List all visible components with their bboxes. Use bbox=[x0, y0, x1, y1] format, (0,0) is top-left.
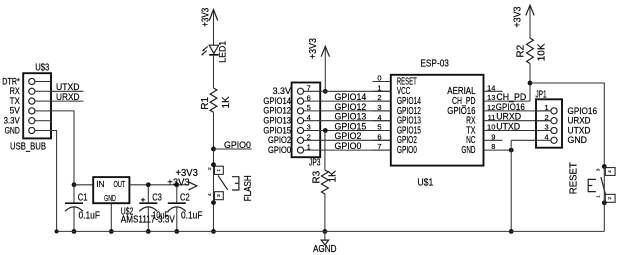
connector JP3 pin 2 circle bbox=[297, 137, 303, 143]
svg-text:OUT: OUT bbox=[114, 179, 126, 189]
svg-text:CH_PD: CH_PD bbox=[496, 92, 526, 102]
junction regulator GND at rail bbox=[109, 229, 114, 234]
wire ESP GND to rail bbox=[503, 149, 512, 151]
connector U$3 pin 4 circle bbox=[29, 108, 35, 114]
svg-text:GND: GND bbox=[104, 193, 116, 203]
switch FLASH contact box bottom bbox=[215, 192, 224, 200]
resistor R1 bbox=[210, 88, 217, 112]
svg-text:AGND: AGND bbox=[313, 244, 337, 255]
svg-text:5: 5 bbox=[377, 123, 381, 132]
svg-text:R3: R3 bbox=[311, 170, 322, 183]
IC U$1 left pin 4 stub bbox=[373, 120, 391, 122]
svg-text:5V: 5V bbox=[10, 106, 20, 116]
connector JP1 pin 1 circle bbox=[551, 108, 557, 114]
switch FLASH contact box top bbox=[215, 166, 224, 174]
connector JP3 pin 5 circle bbox=[297, 108, 303, 114]
junction R2 to RESET net bbox=[528, 81, 533, 86]
svg-text:1: 1 bbox=[596, 195, 602, 198]
svg-text:1: 1 bbox=[307, 142, 311, 151]
supply +3V3 arrow up at JP3 bbox=[324, 46, 326, 91]
wire R2 to CH_PD bbox=[529, 64, 531, 102]
svg-text:1: 1 bbox=[377, 83, 381, 92]
svg-text:GPIO12: GPIO12 bbox=[335, 102, 367, 112]
svg-text:DTR*: DTR* bbox=[2, 76, 20, 86]
junction FLASH at ground rail bbox=[211, 229, 216, 234]
svg-text:C2: C2 bbox=[180, 193, 190, 204]
svg-text:R1: R1 bbox=[200, 96, 211, 109]
wire JP1 GND pin bbox=[511, 139, 536, 141]
svg-text:0.1uF: 0.1uF bbox=[79, 211, 101, 222]
svg-text:2: 2 bbox=[607, 197, 613, 200]
svg-text:2: 2 bbox=[307, 133, 311, 142]
IC U$1 ESP-03 body bbox=[391, 75, 484, 166]
svg-text:3: 3 bbox=[216, 194, 222, 197]
svg-text:3.3V: 3.3V bbox=[273, 86, 292, 96]
svg-text:1K: 1K bbox=[328, 170, 339, 183]
svg-text:GPIO2: GPIO2 bbox=[335, 131, 362, 141]
svg-text:4: 4 bbox=[207, 193, 213, 196]
junction ESP GND bbox=[509, 148, 514, 153]
svg-text:+3V3: +3V3 bbox=[167, 177, 190, 188]
svg-text:11: 11 bbox=[488, 113, 496, 122]
wire JP3 pin 3 to ESP row 5 bbox=[320, 130, 391, 132]
IC U$1 left pin 6 stub bbox=[373, 139, 391, 141]
svg-text:FLASH: FLASH bbox=[243, 175, 254, 201]
wire UTXD net bbox=[503, 130, 551, 132]
junction FLASH pins 1-2 bbox=[211, 162, 216, 167]
junction ground rail left end bbox=[55, 229, 59, 233]
wire GPIO16 net bbox=[503, 110, 551, 112]
wire GPIO15 to R3 bbox=[324, 131, 326, 171]
wire USB GND to ground rail bbox=[51, 131, 57, 232]
resistor R2 bbox=[527, 38, 534, 64]
wire URXD net bbox=[503, 120, 551, 122]
svg-text:6: 6 bbox=[377, 132, 381, 141]
wire TX to URXD bbox=[51, 100, 83, 102]
connector U$3 pin 6 circle bbox=[29, 127, 35, 133]
svg-text:RX: RX bbox=[10, 86, 20, 96]
svg-text:GPIO16: GPIO16 bbox=[496, 102, 525, 112]
svg-text:10K: 10K bbox=[537, 43, 548, 61]
connector JP3 pin 3 circle bbox=[297, 127, 303, 133]
wire R1 to GPIO0 node bbox=[213, 112, 215, 149]
junction VCC supply bbox=[323, 89, 328, 94]
node GPIO0 junction bbox=[211, 147, 216, 152]
svg-text:14: 14 bbox=[487, 83, 495, 92]
capacitor C1 0.1uF bbox=[73, 185, 75, 203]
junction GPIO15 to R3 bbox=[323, 128, 328, 133]
connector JP1 body bbox=[536, 99, 562, 147]
svg-text:LED1: LED1 bbox=[218, 41, 228, 63]
connector JP1 pin 4 circle bbox=[551, 137, 557, 143]
junction FLASH pins 3-4 bbox=[211, 200, 216, 205]
svg-text:URXD: URXD bbox=[496, 112, 521, 122]
ground AGND symbol bbox=[324, 231, 326, 240]
svg-text:GPIO0: GPIO0 bbox=[224, 140, 251, 150]
svg-text:GND: GND bbox=[461, 145, 475, 156]
svg-text:USB_BUB: USB_BUB bbox=[10, 141, 46, 152]
svg-text:GPIO2: GPIO2 bbox=[268, 135, 291, 145]
svg-text:9: 9 bbox=[491, 132, 495, 141]
connector JP3 pin 7 circle bbox=[297, 88, 303, 94]
voltage regulator U$2 body bbox=[93, 177, 129, 203]
wire R3 to ground rail bbox=[324, 194, 326, 231]
wire JP3 pin 7 to ESP row 1 bbox=[320, 90, 391, 92]
svg-text:IN: IN bbox=[96, 179, 104, 189]
svg-text:GPIO14: GPIO14 bbox=[263, 96, 291, 106]
svg-text:GPIO16: GPIO16 bbox=[568, 106, 598, 116]
svg-text:8: 8 bbox=[491, 142, 495, 151]
svg-text:GPIO0: GPIO0 bbox=[335, 141, 362, 151]
wire ground rail bbox=[57, 230, 605, 232]
svg-text:GPIO0: GPIO0 bbox=[397, 145, 417, 156]
connector U$3 USB_BUB body bbox=[23, 73, 51, 138]
svg-text:0: 0 bbox=[377, 74, 381, 83]
junction GND at ground rail bbox=[509, 229, 514, 234]
IC U$1 right pin 11 stub bbox=[484, 120, 503, 122]
switch FLASH lever bbox=[218, 175, 228, 189]
svg-text:+3V3: +3V3 bbox=[201, 7, 212, 26]
svg-text:10: 10 bbox=[487, 123, 495, 132]
svg-text:+3V3: +3V3 bbox=[513, 6, 524, 27]
IC U$1 right pin 13 stub bbox=[484, 100, 503, 102]
svg-text:1: 1 bbox=[545, 103, 549, 112]
svg-text:4: 4 bbox=[607, 170, 613, 173]
wire RESET switch to ground rail bbox=[603, 167, 605, 232]
resistor R3 bbox=[322, 170, 329, 194]
svg-text:C3: C3 bbox=[152, 193, 162, 204]
switch RESET lever bbox=[601, 177, 606, 195]
svg-text:URXD: URXD bbox=[568, 116, 591, 126]
IC U$1 right pin 9 stub bbox=[484, 139, 503, 141]
svg-text:RESET: RESET bbox=[569, 162, 580, 194]
svg-text:5: 5 bbox=[307, 103, 311, 112]
wire JP3 pin 1 to ESP row 7 bbox=[320, 149, 391, 151]
node 5V input junction bbox=[72, 182, 77, 187]
LED LED1 light arrow 2 bbox=[203, 51, 207, 54]
IC U$1 left pin 0 stub bbox=[373, 81, 391, 83]
svg-text:GPIO13: GPIO13 bbox=[335, 112, 367, 122]
svg-text:GND: GND bbox=[568, 135, 588, 145]
svg-text:2: 2 bbox=[545, 113, 549, 122]
svg-text:12: 12 bbox=[487, 103, 495, 112]
IC U$1 right pin 10 stub bbox=[484, 130, 503, 132]
svg-text:GPIO12: GPIO12 bbox=[263, 106, 291, 116]
svg-text:3: 3 bbox=[377, 103, 381, 112]
connector JP3 pin 6 circle bbox=[297, 98, 303, 104]
wire regulator IN bbox=[74, 184, 93, 186]
svg-text:TX: TX bbox=[10, 96, 20, 106]
connector JP3 pin 1 circle bbox=[297, 147, 303, 153]
switch FLASH actuator bracket bbox=[232, 177, 239, 190]
svg-text:4: 4 bbox=[545, 133, 549, 142]
svg-text:3: 3 bbox=[596, 168, 602, 171]
net stub GPIO0 bbox=[214, 148, 252, 150]
svg-text:U$3: U$3 bbox=[35, 63, 49, 74]
supply +3V3 arrow right at OUT bbox=[177, 184, 189, 186]
IC U$1 left pin 1 stub bbox=[373, 90, 391, 92]
svg-text:2: 2 bbox=[377, 93, 381, 102]
svg-text:R2: R2 bbox=[515, 44, 526, 57]
connector JP1 pin 3 circle bbox=[551, 127, 557, 133]
junction R3 at ground rail bbox=[323, 229, 328, 234]
svg-text:13: 13 bbox=[487, 93, 495, 102]
supply +3V3 arrow up at R2 bbox=[529, 5, 531, 38]
svg-text:10uF: 10uF bbox=[152, 211, 169, 222]
svg-text:0.1uF: 0.1uF bbox=[181, 211, 203, 222]
wire JP3 pin 5 to ESP row 3 bbox=[320, 110, 391, 112]
connector JP3 pin 4 circle bbox=[297, 118, 303, 124]
svg-text:3: 3 bbox=[545, 123, 549, 132]
svg-text:3.3V: 3.3V bbox=[4, 116, 20, 126]
svg-text:2: 2 bbox=[207, 167, 213, 170]
svg-text:GPIO0: GPIO0 bbox=[268, 145, 291, 155]
junction C2 top bbox=[174, 182, 179, 187]
IC U$1 right pin 12 stub bbox=[484, 110, 503, 112]
LED LED1 triangle bbox=[209, 45, 218, 53]
svg-text:4: 4 bbox=[307, 113, 311, 122]
wire CH_PD net bbox=[503, 100, 530, 102]
wire JP3 pin 4 to ESP row 4 bbox=[320, 120, 391, 122]
svg-text:ESP-03: ESP-03 bbox=[420, 58, 449, 70]
wire LED to R1 bbox=[213, 55, 215, 88]
LED LED1 light arrow 1 bbox=[204, 46, 208, 49]
svg-text:URXD: URXD bbox=[56, 92, 80, 102]
switch RESET actuator bracket bbox=[588, 179, 596, 191]
supply +3V3 arrow up at LED bbox=[213, 10, 215, 46]
capacitor C3 10uF bbox=[147, 185, 149, 203]
svg-text:JP3: JP3 bbox=[309, 158, 321, 169]
junction RESET pins 1-2 bbox=[602, 200, 607, 205]
junction C3 top bbox=[146, 182, 151, 187]
IC U$1 right pin 8 stub bbox=[484, 149, 503, 151]
svg-text:U$1: U$1 bbox=[417, 178, 433, 189]
svg-text:GPIO13: GPIO13 bbox=[263, 116, 291, 126]
wire RESET net top bbox=[530, 83, 604, 167]
connector U$3 pin 2 circle bbox=[29, 88, 35, 94]
svg-text:GPIO15: GPIO15 bbox=[335, 121, 367, 131]
svg-text:C1: C1 bbox=[78, 193, 88, 204]
wire 5V to regulator input bbox=[51, 111, 74, 185]
connector U$3 pin 5 circle bbox=[29, 118, 35, 124]
wire GND drop to rail bbox=[510, 140, 512, 231]
IC U$1 left pin 2 stub bbox=[373, 100, 391, 102]
svg-text:UTXD: UTXD bbox=[568, 125, 591, 135]
svg-text:GND: GND bbox=[5, 125, 20, 135]
svg-text:+3V3: +3V3 bbox=[308, 38, 319, 59]
svg-text:3: 3 bbox=[307, 123, 311, 132]
connector U$3 pin 1 circle bbox=[29, 78, 35, 84]
svg-text:GPIO14: GPIO14 bbox=[335, 92, 367, 102]
svg-text:6: 6 bbox=[307, 93, 311, 102]
wire regulator GND to rail bbox=[110, 203, 112, 231]
wire RX to UTXD bbox=[51, 90, 83, 92]
connector JP1 pin 2 circle bbox=[551, 118, 557, 124]
svg-text:1K: 1K bbox=[221, 96, 232, 109]
connector U$3 pin 3 circle bbox=[29, 98, 35, 104]
switch RESET contact box bottom bbox=[605, 194, 615, 202]
svg-text:UTXD: UTXD bbox=[56, 82, 80, 92]
svg-text:1: 1 bbox=[216, 169, 222, 172]
svg-text:7: 7 bbox=[307, 84, 311, 93]
svg-text:7: 7 bbox=[377, 142, 381, 151]
wire JP3 pin 2 to ESP row 6 bbox=[320, 139, 391, 141]
junction RESET pins 3-4 bbox=[602, 164, 607, 169]
IC U$1 left pin 7 stub bbox=[373, 149, 391, 151]
capacitor C2 0.1uF bbox=[176, 185, 178, 203]
IC U$1 right pin 14 stub bbox=[484, 90, 503, 92]
connector JP3 body bbox=[292, 83, 321, 158]
wire JP3 pin 6 to ESP row 2 bbox=[320, 100, 391, 102]
svg-text:UTXD: UTXD bbox=[496, 122, 520, 132]
svg-text:4: 4 bbox=[377, 113, 381, 122]
wire GPIO0 to FLASH switch bbox=[213, 149, 215, 231]
wire regulator OUT 3.3V rail bbox=[129, 184, 176, 186]
switch RESET contact box top bbox=[605, 168, 615, 176]
IC U$1 left pin 3 stub bbox=[373, 110, 391, 112]
svg-text:GPIO15: GPIO15 bbox=[263, 125, 291, 135]
IC U$1 left pin 5 stub bbox=[373, 130, 391, 132]
